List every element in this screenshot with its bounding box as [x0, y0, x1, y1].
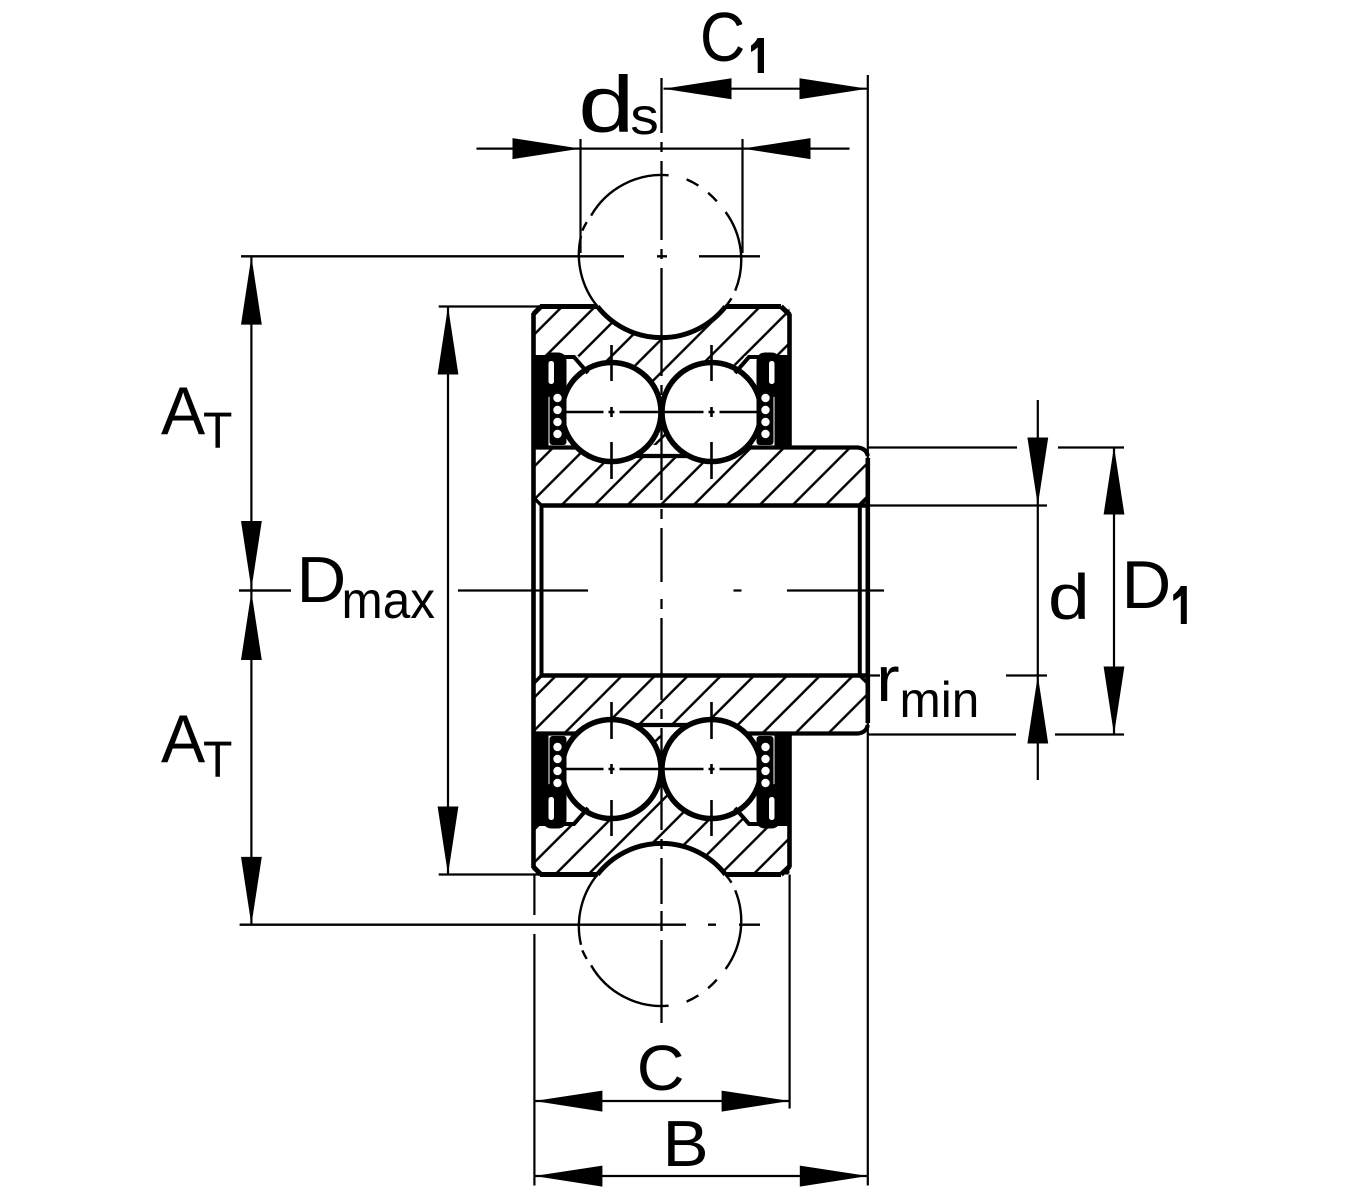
stud circle bottom (thin dashed arcs) [579, 875, 741, 1007]
extension lines thin [439, 75, 1124, 1186]
bore chamfer left vertical [540, 506, 544, 676]
B arrows [534, 1166, 602, 1187]
bore chamfer right vertical [858, 506, 862, 676]
seal top-right [757, 353, 788, 449]
ball center crosses [563, 345, 761, 836]
stud notch arc bottom (thick) [598, 843, 726, 874]
outer ring bore seat line top-left [536, 357, 589, 373]
C right ext [788, 875, 790, 1109]
AT upper arrows [241, 257, 262, 325]
C arrows [534, 1091, 602, 1112]
outer ring bore seat line bottom-left [536, 808, 589, 824]
svg-text:r: r [876, 644, 900, 715]
bore top ext right [868, 504, 1047, 506]
outer ring right face top [787, 314, 792, 450]
d arrows (outside) [1027, 438, 1048, 506]
B right ext / C1 right ext [867, 75, 869, 1186]
svg-text:D: D [297, 544, 347, 617]
hatched section: outer ring bottom block + inner ring bottom strip + flange [534, 676, 868, 875]
stud top horizontal centerline / AT extension [241, 255, 760, 257]
svg-text:T: T [203, 732, 232, 788]
stud roller bottom (white notch cut) [580, 843, 743, 1006]
Dmax ext bottom [439, 873, 540, 875]
outer ring right face bottom [787, 732, 792, 868]
AT center tick [239, 589, 291, 591]
svg-text:C: C [700, 0, 745, 77]
outer ring bottom edge [534, 867, 790, 875]
AT lower dim line [250, 591, 252, 925]
svg-text:B: B [663, 1108, 709, 1180]
Dmax ext top [439, 305, 540, 307]
outer ring bore seat line top-right [735, 357, 788, 373]
bore bottom line [542, 673, 868, 678]
bore bottom ext right [868, 674, 1047, 676]
main vertical centerline [660, 78, 662, 1023]
C1 dim line [664, 88, 868, 90]
hatched section: outer ring top block + inner ring top strip + flange [534, 307, 868, 506]
ball top-right [662, 363, 761, 462]
svg-text:d: d [578, 61, 634, 149]
shoulder gap between balls bottom (white) [632, 724, 691, 736]
raceway shoulder between balls bottom [634, 723, 689, 727]
AT upper dim line [250, 257, 252, 591]
svg-text:T: T [203, 403, 232, 459]
seal cavity bottom-right (white) [745, 733, 788, 825]
AT lower arrows [241, 592, 262, 660]
stud bottom horizontal centerline / AT extension [240, 924, 760, 926]
outer ring bore seat line bottom-right [735, 808, 788, 824]
svg-text:A: A [161, 373, 206, 449]
C dim line [534, 1100, 789, 1102]
seal cavity top-left (white) [536, 356, 579, 448]
C1 arrows [664, 78, 732, 99]
seal bottom-left [536, 733, 567, 829]
B dim line [534, 1175, 867, 1177]
bore chamfer diagonals [534, 498, 868, 684]
stud roller top (white notch cut) [580, 175, 743, 338]
ds left ext [579, 139, 581, 253]
Dmax dim line [447, 307, 449, 875]
flange right face (thick) [865, 458, 870, 723]
svg-text:C: C [637, 1032, 685, 1104]
stud circle top (thin dashed arcs) [579, 175, 741, 307]
D1 arrows [1104, 447, 1125, 515]
d dim line [1037, 400, 1039, 780]
flange bottom ext right [868, 733, 1124, 735]
Dmax arrows [438, 307, 459, 375]
bore top line [542, 503, 868, 508]
left face line [531, 313, 536, 868]
seal cavity bottom-left (white) [536, 733, 579, 825]
svg-text:min: min [900, 672, 980, 728]
svg-text:d: d [1048, 561, 1090, 633]
svg-text:D: D [1122, 548, 1172, 623]
B/C left ext [533, 875, 535, 1186]
D1 dim line [1113, 447, 1115, 735]
flange top ext right [868, 446, 1124, 448]
stud notch arc top (thick) [598, 307, 726, 338]
ds arrows (outside) [513, 138, 581, 159]
raceway shoulder between balls top [634, 454, 689, 458]
ball bottom-right [662, 720, 761, 819]
outer ring top edge [534, 307, 790, 315]
ds dim line [477, 148, 850, 150]
seal top-left [536, 353, 567, 449]
shoulder gap between balls top (white) [632, 445, 691, 457]
inner ring seat line bottom + flange bottom + fillet [536, 725, 868, 734]
seal cavity top-right (white) [745, 356, 788, 448]
seal bottom-right [757, 733, 788, 829]
ball top-left [562, 363, 661, 462]
svg-text:max: max [342, 571, 435, 629]
svg-text:A: A [161, 701, 206, 777]
dimension lines + arrows [239, 89, 1114, 1176]
main horizontal centerline [239, 589, 884, 591]
ball bottom-left [562, 720, 661, 819]
ds right ext [741, 139, 743, 253]
svg-text:s: s [630, 87, 659, 145]
inner ring seat line top + flange top + fillet [536, 448, 868, 457]
